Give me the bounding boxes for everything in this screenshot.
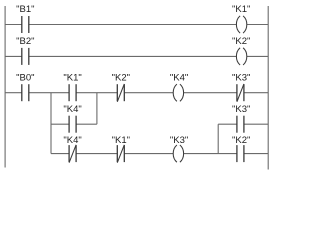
svg-text:"K3": "K3" [170, 135, 188, 146]
svg-text:"B0": "B0" [16, 72, 34, 83]
svg-text:"K2": "K2" [232, 135, 250, 146]
svg-text:"B1": "B1" [16, 4, 34, 15]
svg-text:"K2": "K2" [232, 36, 250, 47]
svg-text:"K3": "K3" [232, 72, 250, 83]
svg-text:"K1": "K1" [232, 4, 250, 15]
svg-text:"K4": "K4" [170, 72, 188, 83]
svg-text:"K2": "K2" [112, 72, 130, 83]
svg-text:"K1": "K1" [63, 72, 81, 83]
svg-text:"K4": "K4" [63, 135, 81, 146]
svg-text:"K3": "K3" [232, 104, 250, 115]
svg-text:"K4": "K4" [63, 104, 81, 115]
svg-text:"K1": "K1" [112, 135, 130, 146]
svg-text:"B2": "B2" [16, 36, 34, 47]
